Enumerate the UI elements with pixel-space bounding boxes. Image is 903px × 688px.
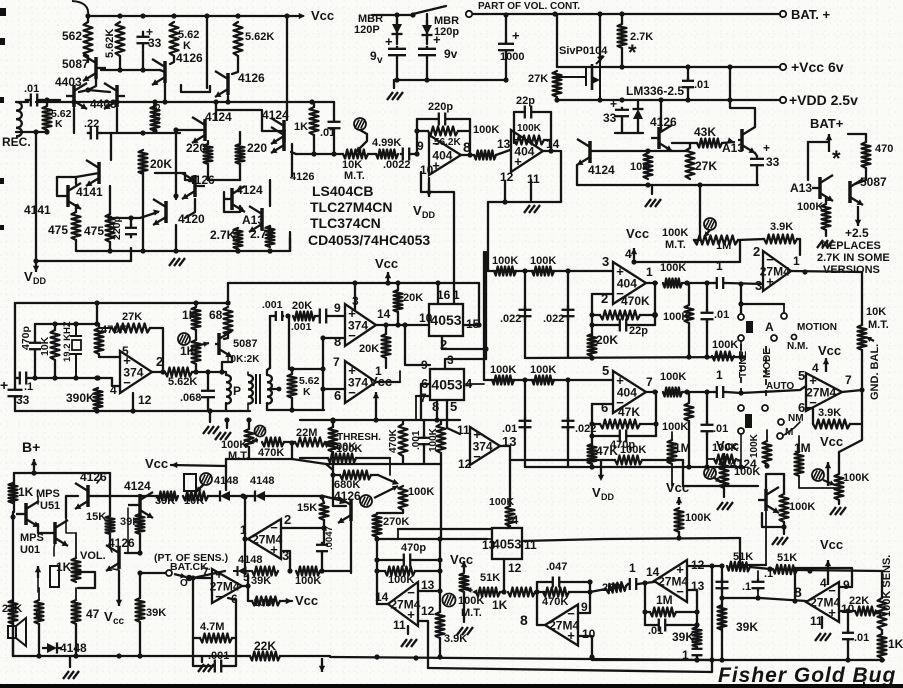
capacitor .01 c2 <box>519 417 532 431</box>
svg-text:47K: 47K <box>596 444 618 458</box>
wire to 4120 base <box>131 212 158 218</box>
wire y496 <box>97 495 158 497</box>
wire <box>239 164 241 180</box>
capacitor .01 reg <box>682 78 694 90</box>
wire <box>423 420 425 438</box>
junction <box>410 12 415 17</box>
wire <box>688 283 690 305</box>
svg-text:27K: 27K <box>122 311 142 323</box>
svg-text:Vcc: Vcc <box>369 374 392 389</box>
arrow +2.5 <box>855 206 861 226</box>
wire <box>333 474 340 476</box>
svg-text:10K: 10K <box>866 306 886 318</box>
wire pin10 line <box>839 610 855 612</box>
wire U51 to U01 <box>38 524 41 533</box>
svg-text:100K: 100K <box>530 364 556 376</box>
svg-text:4: 4 <box>110 383 117 397</box>
svg-text:2.7K: 2.7K <box>210 228 236 242</box>
junction <box>792 598 797 603</box>
terminal NM2 <box>778 419 784 425</box>
svg-text:20K: 20K <box>403 292 423 304</box>
terminal M <box>777 433 783 439</box>
junction <box>33 258 38 263</box>
svg-text:27M4: 27M4 <box>806 386 836 400</box>
junction <box>225 300 230 305</box>
op-amp 27M4 i <box>248 519 282 559</box>
junction <box>311 151 316 156</box>
wire loop2 right <box>550 112 552 151</box>
wire <box>216 110 262 131</box>
junction <box>330 418 335 423</box>
wire <box>569 591 590 593</box>
capacitor .1 j2 <box>752 579 765 591</box>
wire <box>130 248 132 261</box>
wire <box>848 133 866 135</box>
junction <box>44 129 49 134</box>
junction <box>676 535 681 540</box>
capacitor .01 sw2 <box>701 421 714 435</box>
wire <box>207 372 209 388</box>
wire <box>426 58 428 80</box>
junction <box>434 417 439 422</box>
transistor 4126 h2 <box>106 545 119 571</box>
wire <box>423 444 425 464</box>
wire <box>838 500 840 504</box>
svg-text:5087: 5087 <box>860 175 887 189</box>
svg-text:Vcc: Vcc <box>450 552 473 567</box>
svg-text:LS404CB: LS404CB <box>312 183 373 199</box>
transistor 4126 Q2 <box>152 59 165 85</box>
capacitor .068 <box>201 388 215 400</box>
wire <box>637 124 639 133</box>
arrow Vcc down <box>116 570 122 606</box>
wire <box>621 14 623 24</box>
wire <box>397 529 399 539</box>
wire <box>825 230 827 236</box>
diode MBR 120P 1 <box>392 19 403 39</box>
wire <box>645 611 650 613</box>
svg-text:MOTION: MOTION <box>797 322 837 333</box>
wire <box>67 532 76 534</box>
wire pin6 stub <box>421 383 430 385</box>
wire <box>412 559 440 561</box>
resistor 100K c1b <box>532 267 554 276</box>
svg-text:11: 11 <box>457 423 470 437</box>
wire left rail top <box>13 473 15 512</box>
wire <box>458 130 470 132</box>
svg-text:AUTO: AUTO <box>766 381 794 392</box>
wire <box>808 141 829 143</box>
junction <box>522 377 527 382</box>
svg-text:10: 10 <box>582 627 596 641</box>
wire <box>175 133 177 196</box>
resistor 10K MT <box>343 150 368 159</box>
junction <box>719 657 724 662</box>
wire <box>291 369 293 374</box>
svg-text:K: K <box>303 386 311 398</box>
wire <box>500 591 504 593</box>
svg-text:M.T.: M.T. <box>868 319 889 331</box>
resistor 27K <box>686 148 695 179</box>
svg-text:TUNE: TUNE <box>738 350 749 378</box>
junction <box>116 653 121 658</box>
junction <box>32 375 37 380</box>
wire <box>825 198 827 204</box>
wire <box>783 304 785 312</box>
wire <box>651 185 653 194</box>
wire <box>847 640 849 660</box>
wire <box>377 559 401 561</box>
wire <box>876 611 880 614</box>
wire <box>14 398 16 411</box>
wire pin6 wire <box>592 403 613 405</box>
wire bottom bus A <box>36 260 131 262</box>
arrow Vcc j3 <box>676 497 682 505</box>
junction <box>190 575 195 580</box>
wire <box>706 320 708 357</box>
wire <box>207 141 209 144</box>
junction <box>95 375 100 380</box>
wire lad1 <box>524 271 526 358</box>
junction <box>522 268 527 273</box>
arrow wiper h3 <box>823 480 835 485</box>
wire <box>312 101 334 103</box>
transistor 4126 h1 <box>75 483 98 509</box>
wire <box>266 403 268 410</box>
capacitor .1 j1 <box>716 579 729 591</box>
wire <box>689 143 691 148</box>
svg-text:100K: 100K <box>473 124 499 136</box>
wire down to ch1 <box>487 202 489 271</box>
wire <box>226 420 228 428</box>
svg-text:4126: 4126 <box>290 171 314 183</box>
wire y459 ext <box>292 459 333 470</box>
wire loop left <box>536 582 538 625</box>
wire Q2 collector <box>164 78 166 102</box>
wire Q13 collector up <box>269 180 271 206</box>
wire Q6 base <box>76 173 99 177</box>
svg-text:27K: 27K <box>528 73 548 85</box>
wire v722 <box>721 566 723 660</box>
svg-text:3.9K: 3.9K <box>770 221 793 233</box>
svg-text:Vcc: Vcc <box>295 593 318 608</box>
resistor 2.7K <box>234 228 243 249</box>
svg-text:9: 9 <box>334 301 341 315</box>
coil REC <box>16 102 22 136</box>
svg-text:475: 475 <box>48 223 68 237</box>
capacitor 22p g1 <box>618 319 628 332</box>
wire pin13 down <box>687 590 697 611</box>
wire <box>332 452 334 506</box>
wire <box>247 403 249 411</box>
svg-text:.047: .047 <box>546 561 567 573</box>
svg-text:9: 9 <box>370 49 377 63</box>
resistor 100K c2b <box>532 376 554 385</box>
wire <box>155 172 185 174</box>
arrow down bus <box>319 658 325 672</box>
wire <box>113 569 119 570</box>
transistor 4141 Q6 <box>86 160 99 186</box>
wire y598 to apex <box>760 598 806 601</box>
junction <box>52 321 57 326</box>
svg-text:100K: 100K <box>712 339 738 351</box>
svg-text:100K: 100K <box>517 123 542 134</box>
capacitor .1 osc <box>17 372 29 385</box>
zener LM336 <box>633 104 644 124</box>
op-amp 27M4 d <box>388 582 421 626</box>
svg-text:470K: 470K <box>258 447 284 459</box>
wire <box>97 473 101 483</box>
wire <box>12 624 14 656</box>
wire <box>402 420 404 424</box>
terminal VDD25 <box>780 97 786 103</box>
wire <box>291 443 293 459</box>
wire 5087 collector <box>222 357 232 372</box>
junction <box>402 322 407 327</box>
junction <box>94 375 99 380</box>
wire <box>75 588 77 600</box>
wire <box>378 475 396 483</box>
diode 4148 c <box>42 643 62 654</box>
wire <box>642 459 683 461</box>
resistor 5.62K <box>170 22 179 56</box>
svg-text:100K: 100K <box>843 472 869 484</box>
resistor 100K MT i <box>460 573 469 592</box>
resistor 47K g2 <box>600 420 640 429</box>
wire <box>592 314 600 316</box>
svg-text:+: + <box>0 377 8 393</box>
wire repl left <box>807 142 809 180</box>
wire bus cont <box>280 655 330 657</box>
resistor 68 <box>224 307 233 335</box>
wire <box>375 404 377 420</box>
wire 4126reg collector <box>660 100 662 130</box>
wire <box>638 583 645 584</box>
svg-text:4126: 4126 <box>238 71 265 85</box>
junction <box>321 525 326 530</box>
svg-text:1: 1 <box>629 561 636 575</box>
trimmer row <box>200 473 212 485</box>
svg-text:BAT+: BAT+ <box>810 116 844 131</box>
diode 4148 a <box>215 491 235 502</box>
wire <box>672 142 697 144</box>
svg-text:4124: 4124 <box>588 163 615 177</box>
wire to batck switch <box>140 572 165 574</box>
wire <box>38 588 40 600</box>
junction <box>235 248 240 253</box>
svg-text:4: 4 <box>820 576 827 590</box>
wire column i <box>376 537 378 604</box>
wire <box>855 168 866 184</box>
svg-text:22K: 22K <box>849 595 869 607</box>
resistor 4.7M <box>200 634 232 643</box>
wire <box>75 177 77 184</box>
svg-text:220: 220 <box>247 141 267 155</box>
svg-text:4124: 4124 <box>730 457 757 471</box>
svg-text:Vcc: Vcc <box>820 537 843 552</box>
arrow Vcc g1 <box>631 248 637 262</box>
wire y486 <box>683 485 758 487</box>
svg-text:100K: 100K <box>530 255 556 267</box>
junction <box>374 536 379 541</box>
wire right v i <box>439 539 441 591</box>
junction <box>44 97 49 102</box>
wire <box>119 132 180 134</box>
svg-text:.01: .01 <box>713 423 728 435</box>
svg-text:470K: 470K <box>621 294 650 308</box>
wire <box>34 351 36 378</box>
wire <box>682 391 715 393</box>
junction <box>686 354 691 359</box>
wire down to MT pot <box>699 185 701 222</box>
capacitor .0022 <box>400 148 412 161</box>
junction <box>383 322 388 327</box>
resistor 1K j <box>878 634 887 658</box>
junction <box>71 99 76 104</box>
svg-text:Vcc: Vcc <box>666 480 689 495</box>
svg-text:12: 12 <box>500 170 514 184</box>
svg-text:20K: 20K <box>150 157 172 171</box>
svg-text:470p: 470p <box>20 326 32 350</box>
resistor 100K c2a <box>492 376 514 385</box>
junction <box>781 524 786 529</box>
svg-text:+: + <box>433 32 441 47</box>
arrow wiper 1K <box>191 342 209 347</box>
junction <box>193 300 198 305</box>
wire emitter j <box>762 513 784 527</box>
svg-text:22p: 22p <box>629 325 648 337</box>
svg-text:5.62K: 5.62K <box>168 376 197 388</box>
wire <box>505 15 507 43</box>
svg-text:TLC27M4CN: TLC27M4CN <box>310 199 392 215</box>
svg-text:404: 404 <box>432 149 452 163</box>
wire <box>109 534 111 548</box>
svg-text:27M4: 27M4 <box>658 575 688 589</box>
junction <box>385 280 390 285</box>
transformer primary 2 <box>248 375 253 404</box>
wire <box>248 420 250 429</box>
svg-text:270K: 270K <box>383 516 409 528</box>
svg-text:13: 13 <box>497 137 511 151</box>
wire lad4 <box>567 380 569 467</box>
wire <box>696 656 698 660</box>
junction <box>534 589 539 594</box>
junction <box>320 386 325 391</box>
junction <box>589 355 594 360</box>
resistor 100K sw1 <box>712 352 734 361</box>
wire <box>109 242 111 251</box>
wire <box>269 226 271 230</box>
resistor 470K g1 <box>600 311 640 320</box>
wire <box>87 56 89 62</box>
junction <box>483 346 488 351</box>
junction <box>289 440 294 445</box>
resistor 20K g1v <box>588 334 597 356</box>
wire <box>192 577 210 579</box>
svg-text:.01: .01 <box>714 309 729 321</box>
wire <box>699 222 701 240</box>
arrow BAT+ up <box>826 134 832 152</box>
junction <box>130 408 135 413</box>
transformer core <box>256 374 260 404</box>
junction <box>114 99 119 104</box>
resistor 220 <box>204 144 213 164</box>
svg-text:REPLACES: REPLACES <box>821 240 881 252</box>
junction <box>242 494 247 499</box>
resistor 3.9K i <box>436 612 445 638</box>
wire <box>626 584 628 586</box>
wire loop v <box>322 338 324 410</box>
wire <box>592 435 618 437</box>
svg-text:MPS: MPS <box>36 488 60 500</box>
wire A13 collector loop <box>730 100 755 127</box>
resistor 100K SENS <box>878 598 887 630</box>
wire pin2 a <box>441 336 443 349</box>
wire switch blade <box>413 6 446 14</box>
arrowhead VDD j <box>598 475 604 481</box>
arrow wiper gndbal <box>866 337 874 342</box>
arrow wiper row <box>196 484 204 492</box>
wire <box>385 325 387 334</box>
wire sw1 drop <box>740 284 742 313</box>
wire bottom bus left <box>13 655 250 657</box>
wire <box>440 453 442 464</box>
wire VDD stub <box>600 460 602 477</box>
transistor A13 reg <box>738 127 755 153</box>
junction <box>224 417 229 422</box>
svg-text:374: 374 <box>123 366 143 380</box>
junction <box>502 199 507 204</box>
resistor THRESH 100K pot <box>329 427 338 452</box>
wire <box>783 474 785 494</box>
svg-text:2.7K: 2.7K <box>250 227 276 241</box>
wire <box>783 522 785 534</box>
resistor 100K <box>822 204 831 230</box>
wire <box>799 476 839 488</box>
transistor 4126 Q3 <box>215 71 228 97</box>
junction <box>85 13 90 18</box>
wire <box>139 622 141 656</box>
terminal batck <box>166 570 172 576</box>
wire <box>694 239 700 241</box>
resistor 20K f2 <box>382 334 391 358</box>
wire <box>676 611 697 613</box>
svg-text:VERSIONS: VERSIONS <box>823 264 880 276</box>
wire <box>34 472 64 474</box>
junction <box>501 589 506 594</box>
svg-text:Vcc: Vcc <box>716 438 739 453</box>
svg-text:5: 5 <box>602 363 609 378</box>
svg-text:4148: 4148 <box>214 475 238 487</box>
transistor 4126 reg <box>651 125 672 151</box>
wire <box>615 132 643 134</box>
wire <box>505 52 507 80</box>
svg-text:6: 6 <box>334 388 341 403</box>
wire <box>667 624 697 626</box>
junction <box>437 588 442 593</box>
svg-text:10: 10 <box>419 311 433 325</box>
trimmer h3 <box>812 469 824 481</box>
wire v683 <box>682 460 684 486</box>
resistor 100K pin14 <box>506 506 515 526</box>
wire down e <box>288 316 290 369</box>
wire <box>707 458 714 460</box>
resistor 51K i <box>476 588 500 597</box>
svg-text:14: 14 <box>377 307 391 321</box>
arrowhead vol <box>72 569 77 574</box>
wire Q3 collector <box>227 96 229 102</box>
svg-text:14: 14 <box>375 590 389 604</box>
